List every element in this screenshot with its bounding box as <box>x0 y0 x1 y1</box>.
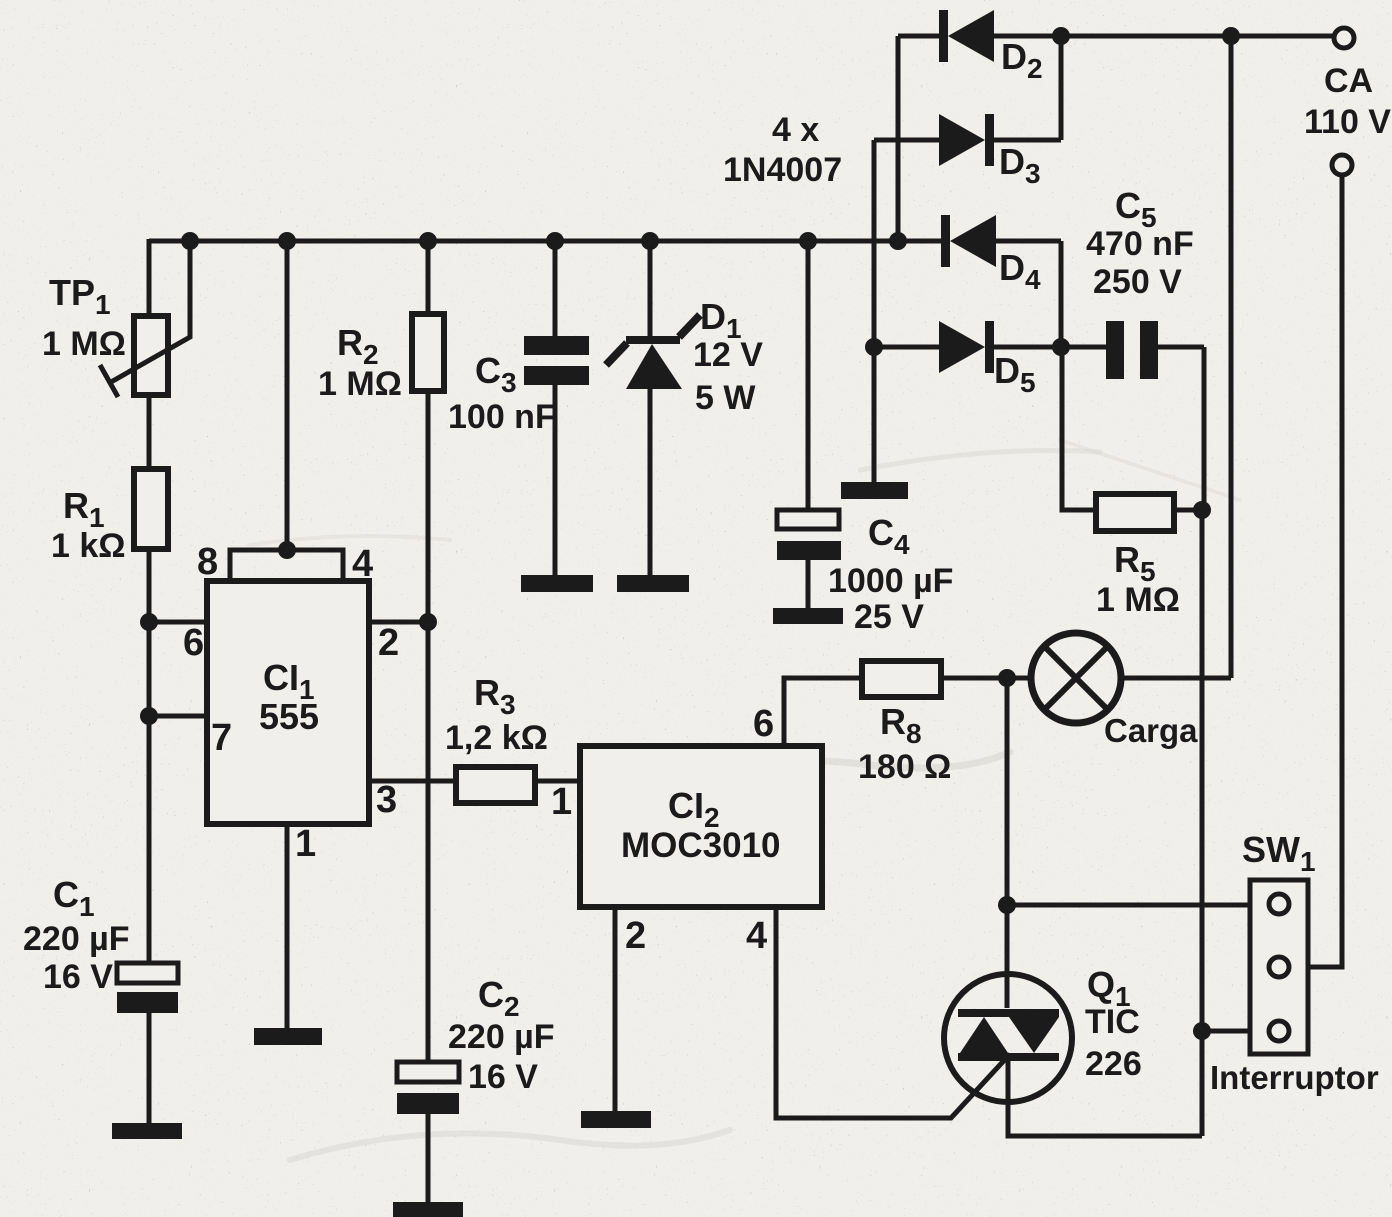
wire pin 3 to R3 <box>369 779 456 784</box>
ground D1 <box>617 575 689 592</box>
wire C2 to ground <box>426 1114 431 1202</box>
svg-text:Carga: Carga <box>1104 712 1198 749</box>
node rail-D1 junction <box>641 232 659 250</box>
wire TP1 to R1 <box>147 395 152 469</box>
node rail-CI1 supply junction <box>278 232 296 250</box>
svg-text:555: 555 <box>259 696 319 737</box>
capacitor C3 <box>524 336 589 355</box>
wire CI2 pin2 down <box>613 907 618 1111</box>
node D2 row junction <box>1052 27 1070 45</box>
node D5 left junction <box>865 338 883 356</box>
lamp Carga <box>1031 633 1121 723</box>
svg-text:16 V: 16 V <box>468 1058 538 1096</box>
svg-text:8: 8 <box>197 541 218 583</box>
capacitor C2 <box>397 1062 459 1082</box>
svg-text:TIC: TIC <box>1085 1003 1140 1041</box>
capacitor C1 <box>117 963 178 983</box>
node lamp left junction <box>998 669 1016 687</box>
wire top supply rail <box>149 239 941 244</box>
wire D3 up to D2 row <box>1059 36 1064 140</box>
wire CI2 pin6 up <box>784 678 862 746</box>
node AC rail junction <box>1222 27 1240 45</box>
zener diode D1 <box>626 336 680 344</box>
wire rail to D1 <box>648 241 653 339</box>
wire to SW1 bottom <box>1202 1029 1250 1034</box>
svg-text:250 V: 250 V <box>1093 263 1182 301</box>
diode D2 <box>898 34 939 39</box>
wire TP1 wiper end tick <box>100 365 118 397</box>
wire C1 to ground <box>147 1013 152 1123</box>
transistor Q1 triac circle <box>944 974 1072 1102</box>
svg-text:12 V: 12 V <box>693 336 763 374</box>
wire bridge left vertical D2-D4 <box>896 36 901 241</box>
wire to SW1 top <box>1007 903 1250 908</box>
svg-text:4 x: 4 x <box>772 111 819 149</box>
ground C3 <box>521 575 593 592</box>
svg-text:4: 4 <box>746 915 767 957</box>
wire rail to C3 <box>553 241 558 336</box>
node pin6 junction <box>140 613 158 631</box>
svg-text:CA: CA <box>1324 62 1373 100</box>
svg-text:1 MΩ: 1 MΩ <box>42 325 126 363</box>
wire left column top <box>147 239 152 316</box>
svg-text:3: 3 <box>376 779 397 821</box>
node pin2 junction <box>419 613 437 631</box>
resistor R8 <box>862 661 941 697</box>
ground C1 <box>112 1123 182 1139</box>
resistor R1 <box>134 469 168 549</box>
terminal CA top <box>1334 28 1354 48</box>
svg-text:110 V: 110 V <box>1304 103 1391 141</box>
wire C5 right <box>1158 345 1204 350</box>
svg-text:2: 2 <box>378 622 399 664</box>
wire R3 to CI2 pin1 <box>535 779 580 784</box>
wire D4 down to D5 row <box>1059 241 1064 347</box>
svg-text:6: 6 <box>183 622 204 664</box>
svg-text:226: 226 <box>1085 1045 1142 1083</box>
svg-text:1: 1 <box>295 823 316 865</box>
terminal CA bottom <box>1332 155 1352 175</box>
IC CI2 MOC3010 box <box>580 746 822 907</box>
wire lamp node down to triac <box>1005 678 1010 1008</box>
triac left triangle <box>960 1017 1008 1053</box>
diode D5 <box>874 345 939 350</box>
wire lamp right <box>1119 676 1231 681</box>
wire bridge left vertical D3-D5 to ground <box>872 140 877 482</box>
wire CI1 pin8-pin4 strap <box>230 550 343 581</box>
node R5 junction <box>1193 501 1211 519</box>
wire snubber left branch <box>1062 347 1096 510</box>
svg-text:470 nF: 470 nF <box>1086 225 1194 263</box>
svg-text:4: 4 <box>352 543 373 585</box>
diode D3 <box>874 138 939 143</box>
wire R8 to lamp <box>941 676 1031 681</box>
wire C5 down to R5 <box>1202 347 1207 510</box>
node triac top junction <box>998 896 1016 914</box>
svg-text:1 MΩ: 1 MΩ <box>1096 581 1180 619</box>
node D5 row junction <box>1052 338 1070 356</box>
svg-text:Interruptor: Interruptor <box>1210 1059 1379 1096</box>
wire D1 to ground <box>648 389 653 575</box>
node pin7 junction <box>140 707 158 725</box>
svg-text:1,2 kΩ: 1,2 kΩ <box>445 719 548 757</box>
switch SW1 box <box>1250 880 1308 1054</box>
wire R5 right <box>1174 508 1204 513</box>
svg-text:100 nF: 100 nF <box>448 398 556 436</box>
wire rail to C4 <box>806 241 811 510</box>
op-amp U1 CI1 555 box <box>207 581 369 824</box>
ground bridge negative <box>841 482 908 499</box>
ground C2 <box>393 1202 463 1217</box>
svg-text:MOC3010: MOC3010 <box>621 826 781 865</box>
svg-text:220 µF: 220 µF <box>23 920 130 958</box>
capacitor C4 <box>777 510 839 529</box>
node strap junction <box>278 541 296 559</box>
wire pin 6 <box>149 620 207 625</box>
svg-text:1N4007: 1N4007 <box>723 151 842 189</box>
node rail-bridge junction <box>889 232 907 250</box>
potentiometer TP1 <box>134 316 168 395</box>
wire C3 to ground <box>553 385 558 575</box>
svg-text:180 Ω: 180 Ω <box>858 748 951 786</box>
wire CI2 pin4 to triac gate <box>776 907 1010 1118</box>
wire rail to R2 <box>426 241 431 314</box>
resistor R5 <box>1096 494 1174 531</box>
node rail-C4 junction <box>799 232 817 250</box>
svg-text:7: 7 <box>211 717 232 759</box>
node rail-C3 junction <box>546 232 564 250</box>
ground CI1 pin1 <box>254 1028 322 1045</box>
svg-text:6: 6 <box>753 703 774 745</box>
svg-text:1000 µF: 1000 µF <box>828 562 953 600</box>
svg-text:220 µF: 220 µF <box>448 1018 555 1056</box>
svg-text:25 V: 25 V <box>854 598 924 636</box>
svg-text:16 V: 16 V <box>43 958 113 996</box>
wire triac bottom <box>1008 1054 1202 1136</box>
capacitor C5 <box>1106 321 1124 379</box>
wire pin 2 <box>369 620 428 625</box>
wire snubber down to triac <box>1200 510 1205 1136</box>
triac bottom bar <box>958 1053 1059 1061</box>
triac top bar <box>958 1009 1059 1017</box>
node TP1 wiper junction <box>181 232 199 250</box>
svg-text:1: 1 <box>551 781 572 823</box>
svg-text:1 kΩ: 1 kΩ <box>51 527 126 565</box>
wire CI1 pin 1 to ground <box>285 824 290 1028</box>
scan smudges (decorative) <box>250 440 1240 1160</box>
diode D4 <box>941 215 950 267</box>
resistor R3 <box>456 767 535 803</box>
ground CI2 pin2 <box>581 1111 651 1128</box>
wire R2 down to C2 <box>426 391 431 1062</box>
resistor R2 <box>412 314 444 391</box>
node SW1 bottom junction <box>1193 1022 1211 1040</box>
wire SW1 middle to CA <box>1308 175 1342 967</box>
wire rail to CI1 strap <box>285 241 290 552</box>
node rail-R2 junction <box>419 232 437 250</box>
triac right triangle <box>1009 1017 1059 1053</box>
wire TP1 wiper <box>111 241 190 382</box>
wire R1 to C1 <box>147 549 152 963</box>
svg-text:1 MΩ: 1 MΩ <box>318 365 402 403</box>
ground C4 <box>773 608 843 624</box>
wire lamp to AC rail <box>1229 36 1234 678</box>
svg-text:5 W: 5 W <box>695 379 756 417</box>
svg-text:2: 2 <box>625 915 646 957</box>
wire pin 7 <box>149 714 207 719</box>
wire C4 to ground <box>806 560 811 608</box>
